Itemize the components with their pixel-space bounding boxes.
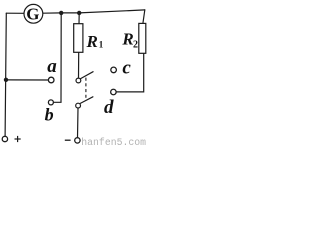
wire top run from galvanometer to top-right corner [43, 10, 145, 13]
svg-text:G: G [26, 5, 39, 24]
wire from switch S2 down to - terminal [77, 108, 80, 138]
svg-text:1: 1 [99, 40, 104, 50]
node junction dot at top (branch to b) [59, 11, 63, 15]
svg-text:hanfen5.com: hanfen5.com [81, 137, 146, 146]
wire top-right corner down to R2 [143, 10, 145, 24]
svg-text:R: R [86, 32, 98, 51]
wire left rail down to + terminal [5, 13, 6, 136]
terminal c [111, 67, 117, 73]
battery + terminal [2, 136, 7, 141]
svg-text:2: 2 [133, 39, 138, 50]
battery - terminal [75, 138, 80, 143]
plus sign [15, 136, 21, 142]
terminal b [48, 100, 53, 105]
svg-text:b: b [45, 105, 54, 125]
switch S1 blade [81, 72, 94, 79]
switch S2 blade [80, 97, 93, 104]
galvanometer G [24, 4, 43, 23]
resistor R1 [74, 24, 104, 53]
wire from node at top down to R1 [78, 13, 80, 24]
wire top-left from galvanometer to left corner [6, 12, 23, 14]
switch S2 pivot [76, 103, 81, 108]
svg-text:a: a [47, 56, 57, 77]
wire R1 bottom to switch S1 pivot [78, 52, 80, 78]
svg-text:d: d [104, 97, 114, 118]
wire from left-rail junction to terminal a [7, 79, 48, 81]
switch S1 pivot [76, 78, 81, 83]
wire from node B down then left to terminal b [54, 13, 62, 102]
minus sign [65, 139, 71, 141]
node junction dot at top (branch to R1) [77, 11, 81, 15]
terminal d [111, 89, 117, 95]
ganged-switch dashed link [85, 78, 87, 101]
resistor R2 [121, 23, 145, 53]
svg-text:R: R [121, 30, 133, 49]
svg-text:c: c [122, 57, 131, 78]
node junction dot on left rail (branch to a) [4, 78, 8, 82]
terminal a [48, 77, 54, 83]
wire from terminal d right then up to R2 bottom [116, 53, 144, 92]
